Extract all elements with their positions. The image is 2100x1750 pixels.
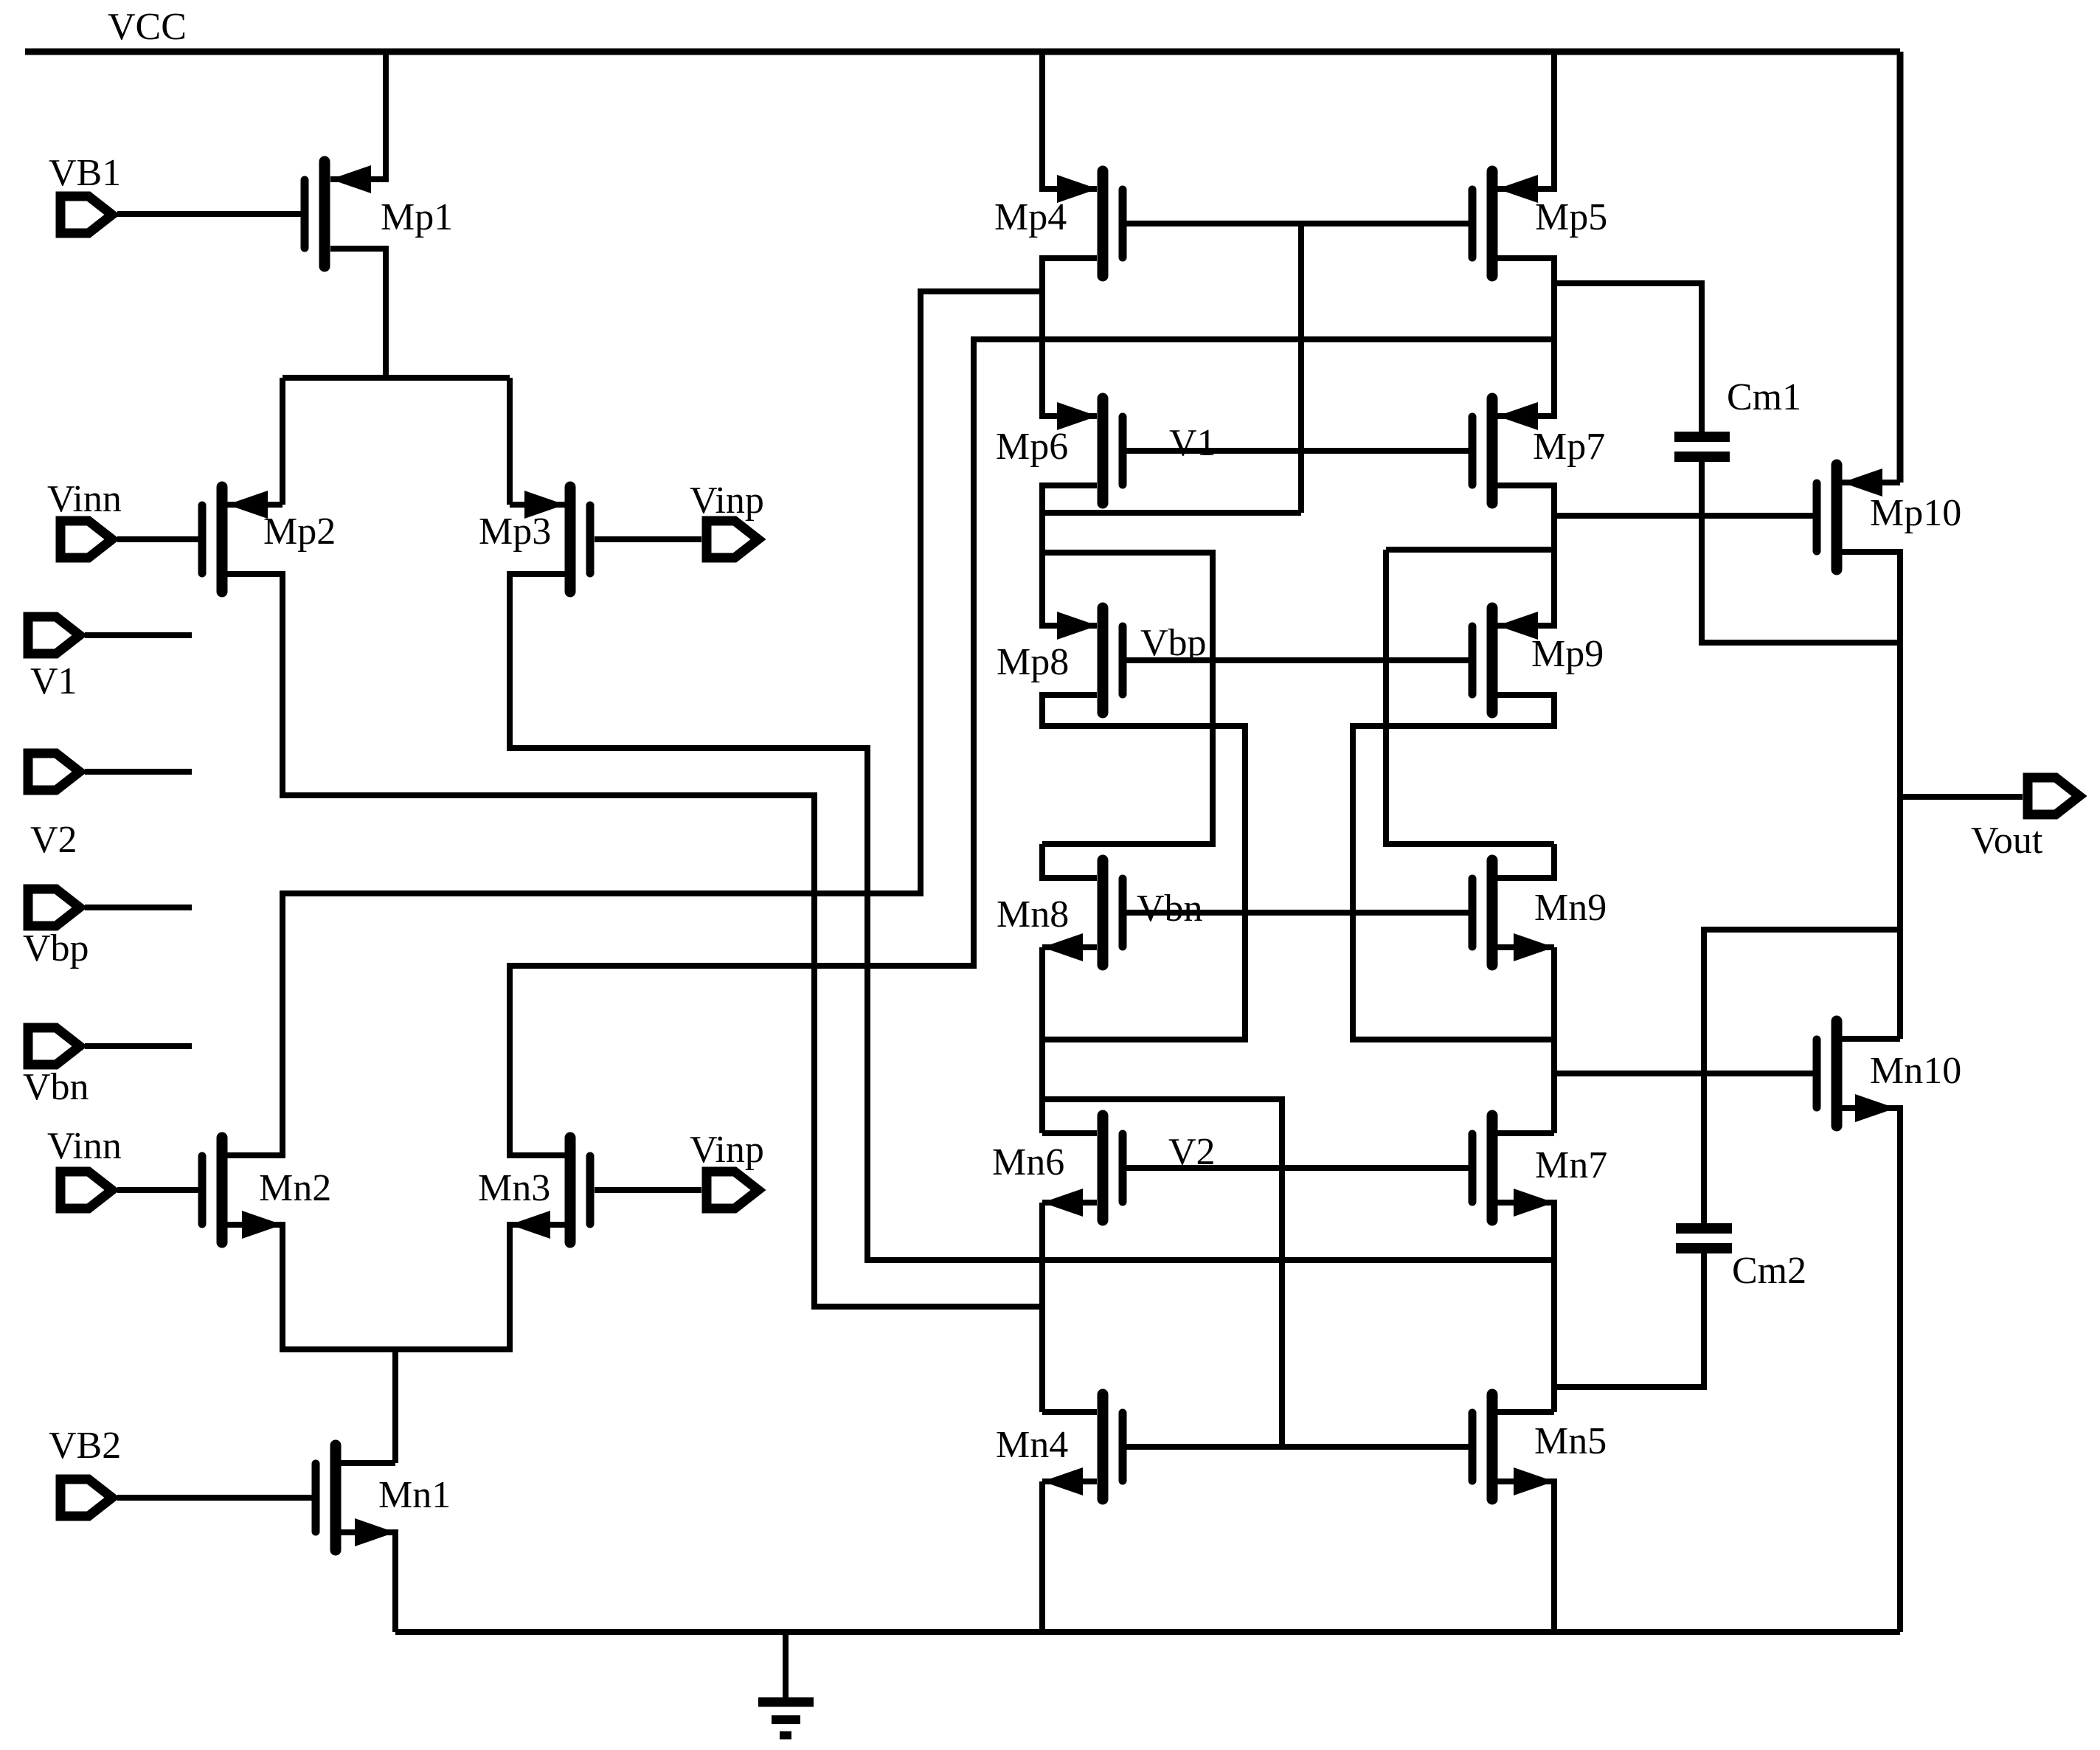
svg-text:Vinp: Vinp: [690, 1129, 764, 1171]
svg-text:Mp2: Mp2: [263, 511, 336, 553]
svg-text:Mn5: Mn5: [1534, 1420, 1607, 1462]
svg-text:VB2: VB2: [49, 1425, 121, 1467]
svg-text:Cm1: Cm1: [1727, 376, 1801, 418]
svg-text:Mp8: Mp8: [997, 641, 1069, 683]
svg-text:Mp3: Mp3: [479, 511, 551, 553]
svg-text:Vinn: Vinn: [47, 478, 122, 520]
svg-text:Mp5: Mp5: [1535, 196, 1607, 238]
svg-text:V2: V2: [1168, 1131, 1216, 1173]
svg-text:Vinp: Vinp: [690, 480, 764, 522]
svg-text:V1: V1: [30, 660, 77, 702]
svg-text:VCC: VCC: [108, 6, 187, 48]
svg-text:Mp6: Mp6: [996, 426, 1068, 468]
svg-text:Mn10: Mn10: [1870, 1050, 1961, 1092]
svg-text:Mn4: Mn4: [996, 1424, 1068, 1466]
svg-text:Vbn: Vbn: [23, 1066, 89, 1108]
svg-text:Mn3: Mn3: [478, 1167, 550, 1209]
svg-text:Mn8: Mn8: [997, 893, 1069, 935]
svg-text:Vout: Vout: [1971, 820, 2043, 862]
svg-text:Vbp: Vbp: [1140, 622, 1207, 664]
svg-text:Mn1: Mn1: [378, 1474, 451, 1516]
svg-text:Vbp: Vbp: [23, 927, 89, 969]
svg-text:Mp1: Mp1: [381, 196, 453, 238]
svg-text:Mn6: Mn6: [992, 1141, 1064, 1183]
svg-text:VB1: VB1: [49, 152, 121, 194]
svg-text:Mn2: Mn2: [259, 1167, 331, 1209]
svg-text:Vbn: Vbn: [1137, 888, 1203, 930]
svg-text:Vinn: Vinn: [47, 1125, 122, 1167]
svg-text:Mp7: Mp7: [1533, 426, 1605, 468]
svg-text:Mp4: Mp4: [994, 196, 1067, 238]
svg-text:Cm2: Cm2: [1732, 1250, 1806, 1292]
svg-text:Mn7: Mn7: [1535, 1144, 1607, 1186]
svg-text:Mp10: Mp10: [1870, 492, 1961, 534]
svg-text:Mp9: Mp9: [1531, 633, 1604, 675]
svg-text:Mn9: Mn9: [1534, 887, 1607, 929]
svg-text:V1: V1: [1169, 422, 1216, 464]
svg-text:V2: V2: [30, 819, 77, 861]
